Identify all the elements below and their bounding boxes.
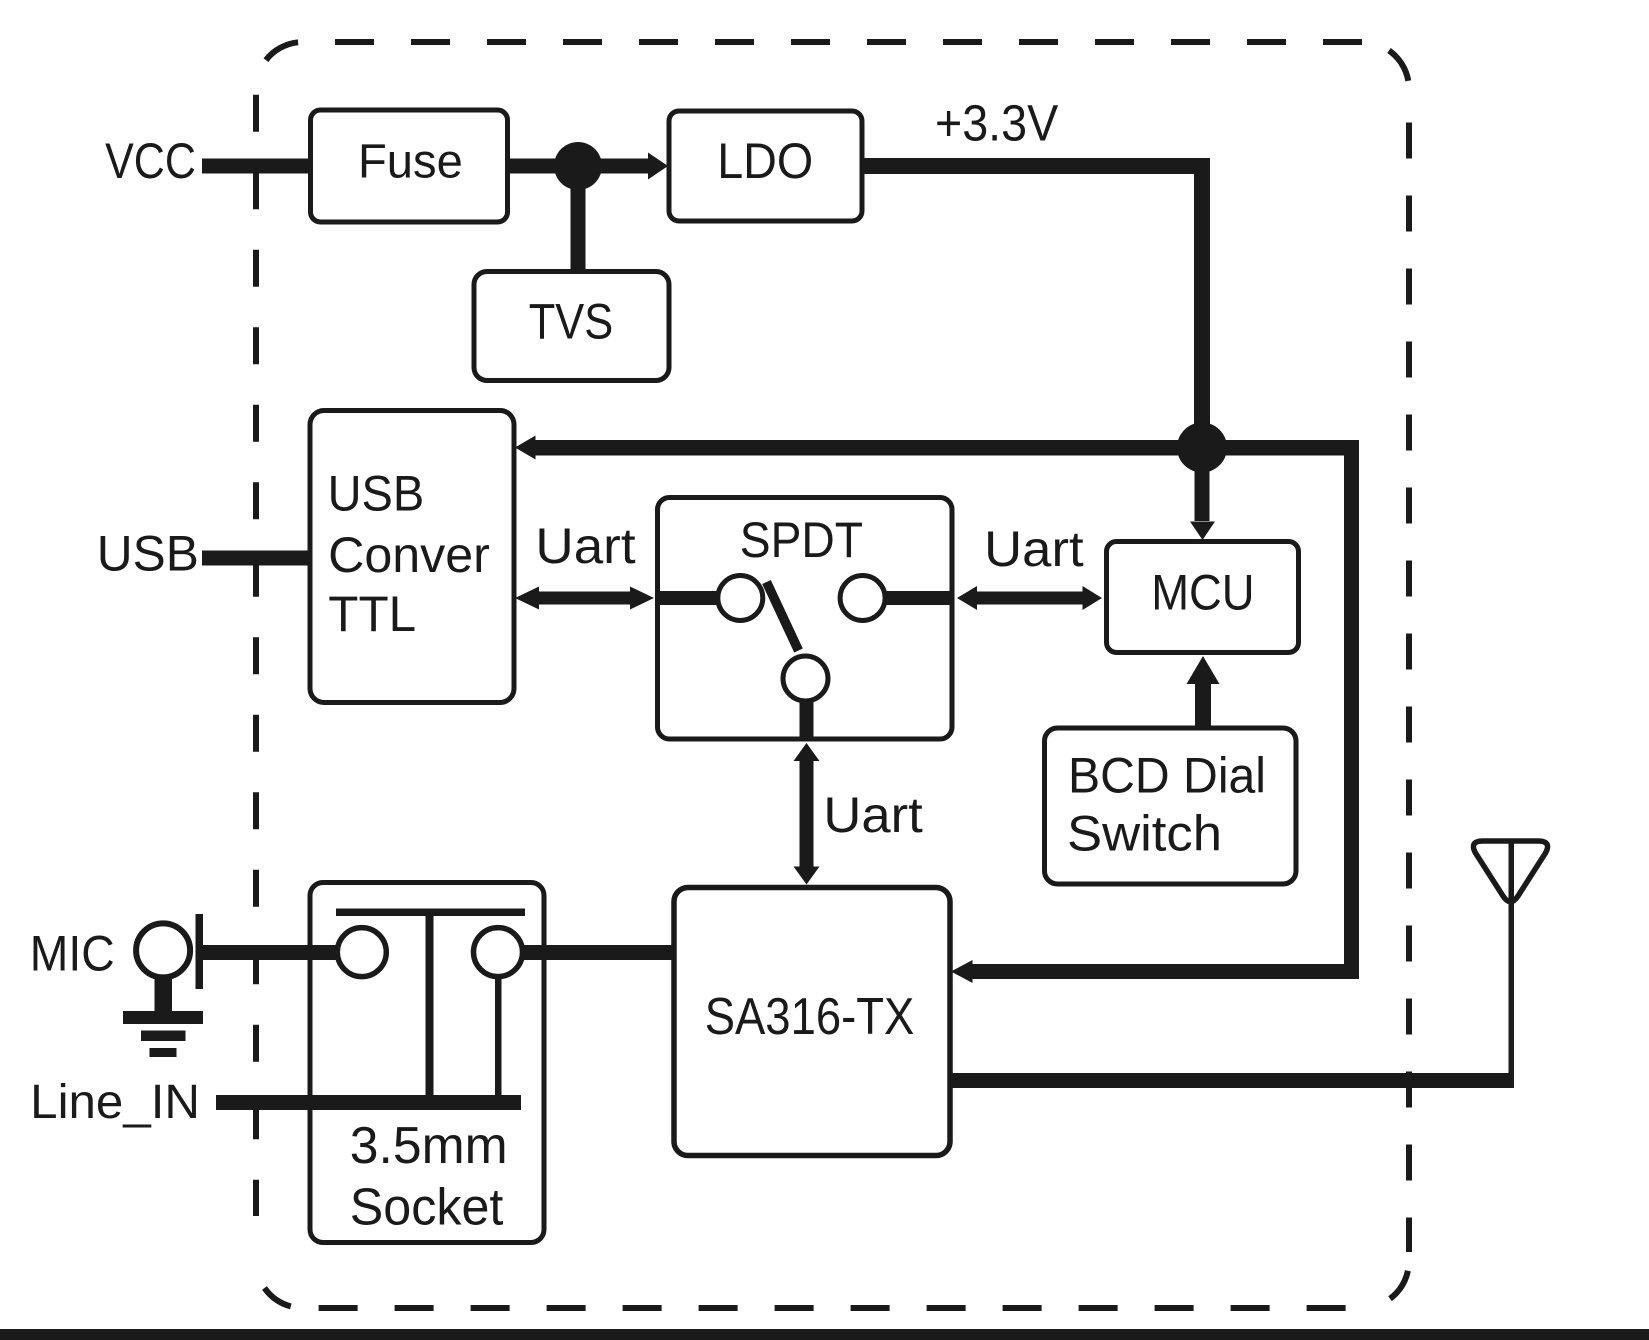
wire 3.3V rail horizontal (534, 440, 1359, 456)
wire rail to SA316-TX (970, 964, 1359, 979)
border left edge (253, 95, 259, 1216)
SPDT contact circle left (718, 576, 763, 621)
box USB Conver TTL (310, 411, 514, 703)
wire Line_IN (216, 1095, 521, 1110)
box TVS (474, 272, 669, 381)
wire SA316-TX RF output (949, 1073, 1514, 1088)
wire VCC input (202, 159, 312, 174)
wire SPDT common stem (800, 701, 814, 741)
svg-text:VCC: VCC (105, 133, 196, 189)
border top-left corner arc (266, 42, 298, 60)
svg-text:TTL: TTL (328, 586, 416, 642)
arrow 3.3V into MCU (1195, 447, 1210, 521)
ground (155, 978, 173, 1012)
SPDT lever (767, 582, 799, 651)
page bottom rule (0, 1329, 1649, 1340)
border right edge (1406, 123, 1412, 1253)
svg-text:Uart: Uart (535, 518, 635, 574)
module boundary dashed border (256, 42, 1409, 1308)
socket right contact circle (474, 928, 523, 977)
border bottom edge (319, 1305, 1369, 1311)
wire +3.3V vertical drop (1194, 158, 1210, 448)
svg-text:SPDT: SPDT (740, 512, 863, 568)
SPDT contact circle right (840, 576, 885, 621)
svg-text:MCU: MCU (1151, 564, 1254, 620)
box LDO (669, 111, 862, 221)
box MCU (1107, 542, 1299, 653)
svg-text:USB: USB (97, 525, 199, 581)
socket center stem (426, 916, 434, 1096)
svg-text:TVS: TVS (529, 293, 613, 349)
wire Uart double arrow USB to SPDT (537, 592, 632, 605)
svg-text:BCD Dial: BCD Dial (1068, 747, 1266, 803)
wire right rail vertical (1344, 440, 1359, 979)
svg-text:USB: USB (328, 466, 425, 522)
antenna feed line (1509, 840, 1515, 1075)
svg-text:3.5mm: 3.5mm (350, 1117, 508, 1175)
wire SPDT pole left (658, 591, 718, 605)
box SA316-TX (674, 888, 950, 1156)
border top-right corner arc (1389, 51, 1408, 81)
MIC connector symbol (136, 923, 190, 977)
SPDT common circle bottom (783, 656, 828, 701)
svg-text:Uart: Uart (984, 521, 1084, 577)
wire LDO output +3.3V horizontal (862, 158, 1210, 174)
antenna (1473, 841, 1547, 902)
svg-text:Fuse: Fuse (358, 136, 463, 189)
svg-text:+3.3V: +3.3V (935, 95, 1058, 152)
svg-text:Conver: Conver (328, 527, 490, 583)
border bottom-right corner arc (1390, 1271, 1408, 1299)
svg-text:Uart: Uart (823, 787, 923, 843)
socket left contact circle (337, 928, 386, 977)
svg-text:MIC: MIC (30, 925, 115, 981)
svg-text:Switch: Switch (1067, 806, 1222, 862)
svg-text:Line_IN: Line_IN (30, 1076, 200, 1129)
wire socket to SA316-TX (524, 945, 674, 960)
junction dot at Fuse output (554, 142, 602, 190)
svg-text:Socket: Socket (350, 1179, 504, 1237)
socket right contact stem (495, 979, 502, 1096)
box Fuse (311, 110, 508, 222)
svg-text:LDO: LDO (717, 133, 813, 189)
arrowhead into USB Conver TTL (515, 436, 536, 460)
wire USB input (202, 551, 312, 566)
arrowhead into LDO (648, 153, 668, 180)
junction dot on 3.3V rail (1177, 423, 1227, 473)
arrowhead into SA316-TX right (951, 960, 973, 983)
socket top bar (336, 909, 525, 917)
box 3.5mm Socket (310, 883, 544, 1243)
wire Uart double arrow SPDT to MCU (975, 592, 1084, 605)
border bottom-left corner arc (265, 1288, 291, 1306)
wire TVS stem (571, 166, 586, 272)
wire Fuse to LDO (507, 159, 650, 174)
border top edge (335, 39, 1370, 45)
arrow BCD to MCU (1195, 684, 1211, 729)
wire SPDT throw right (886, 591, 953, 605)
box BCD Dial Switch (1045, 728, 1297, 884)
svg-text:SA316-TX: SA316-TX (705, 988, 915, 1046)
box SPDT (658, 498, 953, 740)
wire Uart double arrow SPDT to SA316-TX (794, 743, 820, 761)
wire MIC to socket (203, 945, 336, 960)
